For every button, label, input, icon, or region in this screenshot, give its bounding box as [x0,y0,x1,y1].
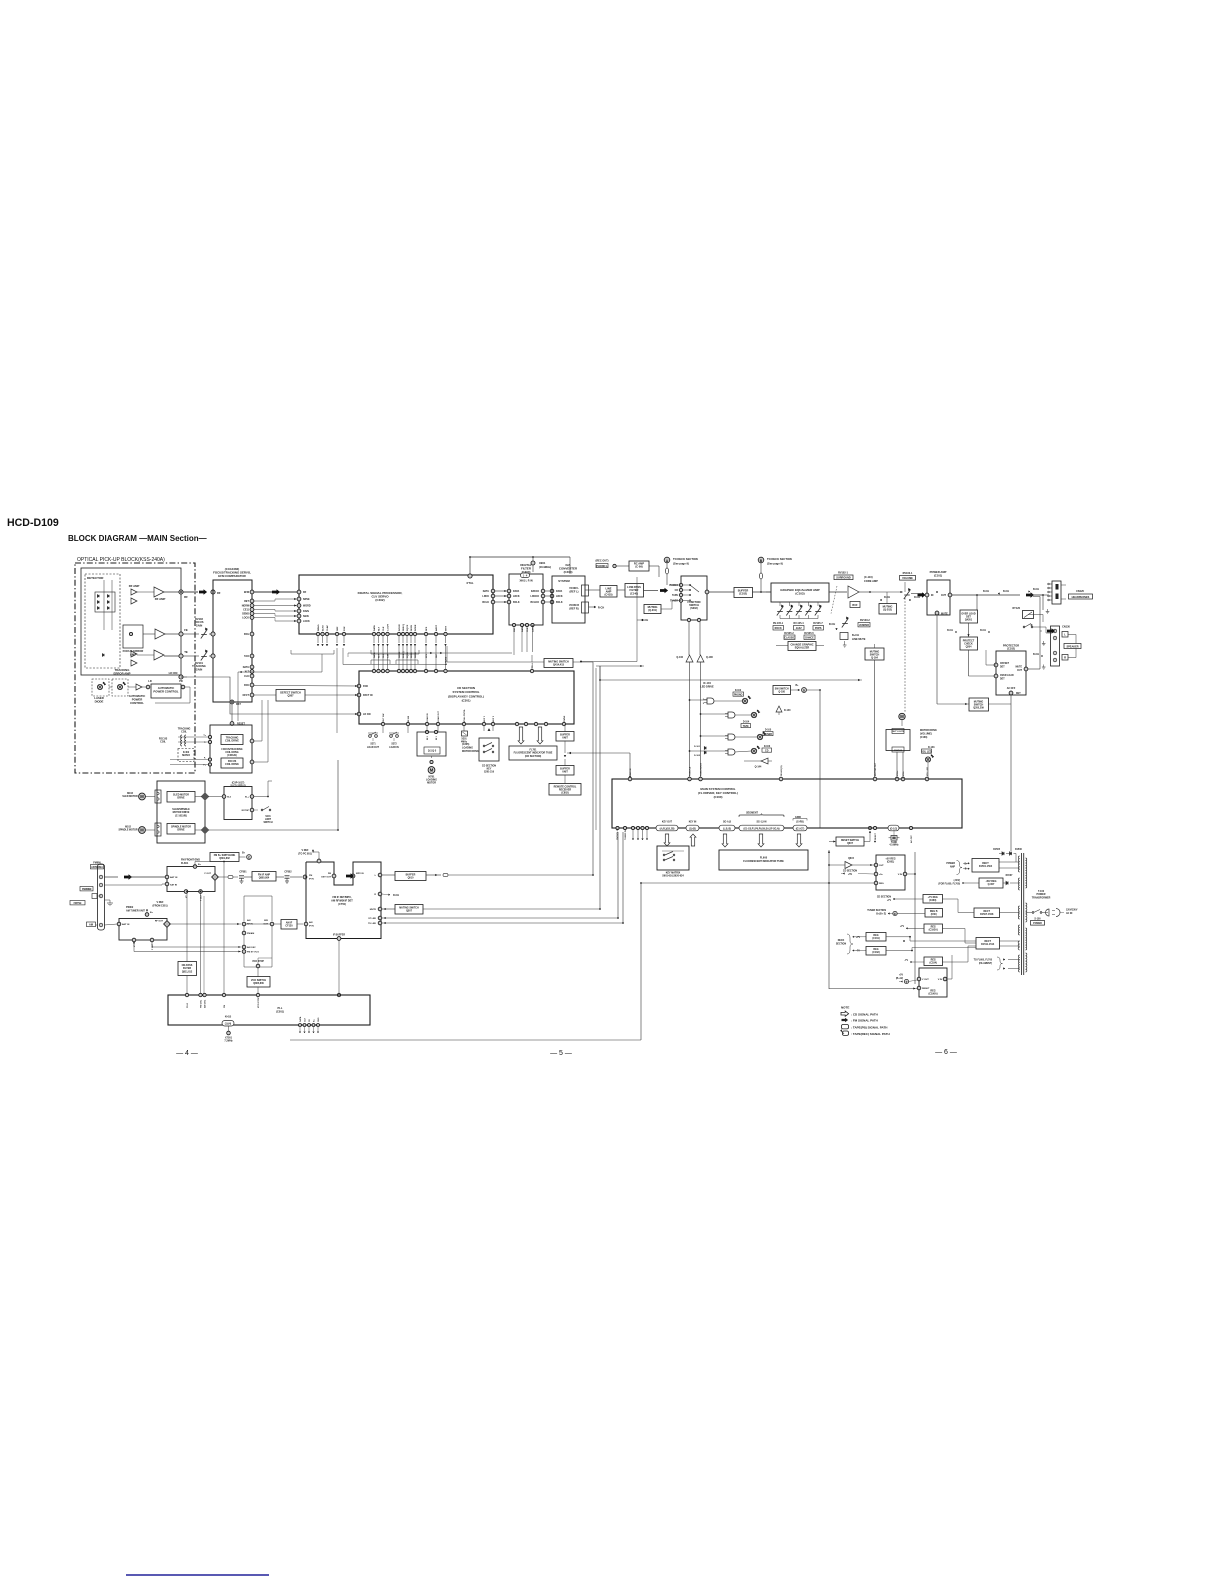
svg-text:CNTROL IN: CNTROL IN [617,828,619,840]
svg-text:AM: AM [309,921,313,924]
svg-text:GND: GND [318,1017,320,1022]
svg-text:Q204: Q204 [966,646,973,649]
svg-text:DETECTOR: DETECTOR [87,576,104,580]
svg-text:TANK: TANK [891,841,898,844]
svg-text:LIMIT: LIMIT [265,819,272,821]
svg-text:AC-OFF: AC-OFF [910,834,913,843]
svg-text:WORD: WORD [303,605,311,608]
svg-text:D-143: D-143 [928,746,935,749]
svg-text:PD: PD [179,679,183,683]
svg-text:SEGMENT: SEGMENT [746,812,758,815]
svg-text:SFS: SFS [426,653,428,658]
svg-text:RET: RET [244,600,249,603]
svg-text:CLK: CLK [244,675,249,678]
svg-text:IF IN: IF IN [309,925,314,927]
svg-text:GAIN: GAIN [196,667,203,671]
svg-text:DATA: DATA [243,666,250,669]
svg-text:1 - 4: 1 - 4 [523,575,528,578]
svg-text:UNIT: UNIT [562,737,568,740]
svg-text:Q205,209: Q205,209 [973,707,984,710]
svg-text:Q607: Q607 [847,842,854,845]
svg-text:LED DRIVE: LED DRIVE [700,685,714,688]
svg-text:CE11: CE11 [243,609,250,612]
svg-text:DODE: DODE [415,651,417,658]
svg-text:ANT IN: ANT IN [170,876,178,879]
svg-text:(C103): (C103) [795,592,804,596]
svg-text:R: R [1064,656,1066,660]
svg-text:(C163): (C163) [920,736,928,739]
svg-text:ERROR AMP: ERROR AMP [114,671,131,675]
svg-text:D-402: D-402 [183,751,190,754]
svg-text:TO DECK SECTION: TO DECK SECTION [673,557,698,561]
svg-text:B-CH: B-CH [980,630,986,632]
svg-text:SLED SERVO: SLED SERVO [230,785,246,788]
svg-text:MUTE: MUTE [370,909,377,911]
svg-text:DET OUT: DET OUT [321,876,331,878]
svg-text:AC OFF: AC OFF [1007,687,1016,690]
svg-text:: TAPE(REC) SIGNAL PATH: : TAPE(REC) SIGNAL PATH [851,1032,890,1036]
svg-text:AM: AM [247,919,251,922]
svg-text:4.19MHz: 4.19MHz [889,844,899,847]
svg-text:— 4 —: — 4 — [176,1050,198,1057]
svg-text:CLK: CLK [305,1017,307,1022]
svg-text:(C301/B): (C301/B) [227,755,237,757]
svg-text:RF AMP: RF AMP [155,597,166,601]
svg-text:X201: X201 [461,739,467,741]
svg-text:SERVO: SERVO [182,755,190,757]
svg-text:DATA: DATA [556,590,563,593]
svg-text:SYSTEM: SYSTEM [558,579,570,583]
svg-text:(C404): (C404) [564,570,573,574]
svg-text:ARST: ARST [435,624,438,631]
svg-text:RELAY (G): RELAY (G) [780,765,783,776]
svg-text:S101: S101 [265,816,271,818]
svg-text:AM OSC: AM OSC [247,946,256,949]
svg-text:FOK: FOK [244,684,249,687]
svg-text:IF IN: IF IN [309,878,314,880]
svg-text:DATA: DATA [373,652,376,658]
svg-text:MUTE: MUTE [941,613,948,616]
svg-text:SENS: SENS [411,625,413,631]
svg-text:D-104: D-104 [743,721,750,724]
svg-text:TAPE: TAPE [743,725,749,728]
svg-text:(FOR FL600, FL700): (FOR FL600, FL700) [938,883,960,885]
svg-text:DIODE: DIODE [95,699,104,703]
svg-text:DATA: DATA [373,625,376,631]
svg-text:B-: B- [965,869,968,871]
svg-text:R-CH: R-CH [393,894,399,897]
svg-text:Q-144: Q-144 [755,766,762,769]
svg-text:FM OSC: FM OSC [201,999,203,1008]
svg-text:-7V: -7V [856,951,860,953]
svg-text:MOTOR DRIVE: MOTOR DRIVE [462,750,479,753]
svg-text:(C460): (C460) [929,899,937,902]
svg-text:R-CH: R-CH [598,607,604,610]
svg-text:LOCK: LOCK [242,617,249,620]
svg-text:AM: AM [89,924,93,927]
svg-text:F OUT: F OUT [204,873,211,875]
svg-text:OUT: OUT [879,865,884,867]
svg-text:B-CH: B-CH [947,630,953,632]
svg-text:SPINDLE MOTOR: SPINDLE MOTOR [118,829,137,831]
svg-text:PHONO: PHONO [670,585,679,587]
svg-text:SUB Q: SUB Q [403,651,405,658]
svg-text:EQUALIZER: EQUALIZER [795,647,810,650]
svg-text:AMP: AMP [950,865,956,868]
svg-text:V OUT: V OUT [922,979,929,981]
svg-text:OUT: OUT [1017,670,1022,672]
svg-text:VCO STOP: VCO STOP [258,997,260,1008]
svg-text:OFCT: OFCT [242,694,249,697]
svg-text:LOCK: LOCK [303,620,310,623]
svg-text:RY120: RY120 [1012,607,1020,610]
svg-text:M102: M102 [125,827,131,829]
svg-text:B-CH: B-CH [1003,590,1009,593]
svg-text:HEADPHONES: HEADPHONES [1072,596,1090,599]
svg-text:FUNCT-A: FUNCT-A [689,766,692,776]
svg-text:LRCK: LRCK [556,595,563,598]
svg-text:MUTE: MUTE [1015,667,1022,669]
svg-text:OUT: OUT [941,594,947,597]
svg-text:(C301): (C301) [462,699,471,703]
svg-text:Q801,802: Q801,802 [219,857,230,860]
svg-text:AM OSC: AM OSC [204,999,207,1008]
svg-text:LATCH: LATCH [532,624,535,632]
svg-text:DODE: DODE [415,624,417,631]
svg-text:OVER LOAD: OVER LOAD [1000,674,1014,677]
svg-text:NORM: NORM [242,605,249,608]
svg-text:ANT IN: ANT IN [122,923,130,926]
svg-text:DFCT IN: DFCT IN [363,694,373,697]
svg-text:R-CH: R-CH [914,596,920,599]
svg-text:POWER: POWER [1033,923,1042,925]
svg-text:DANCE: DANCE [805,637,814,640]
svg-text:S201-216: S201-216 [484,771,495,773]
svg-text:SUB Q: SUB Q [403,624,405,631]
svg-text:TUNER SECTION: TUNER SECTION [867,910,886,912]
svg-text:DATA: DATA [299,1016,302,1022]
svg-text:Q4201: Q4201 [965,619,973,622]
svg-text:XLT: XLT [379,626,381,631]
svg-text:M: M [140,794,144,799]
svg-text:TO FL600, FL700: TO FL600, FL700 [974,960,993,962]
svg-text:TAPE: TAPE [672,594,678,597]
svg-text:JAZZ: JAZZ [796,627,803,630]
svg-text:RV100-1: RV100-1 [903,572,913,575]
svg-text:150/160: 150/160 [894,750,903,752]
svg-text:RF: RF [303,591,307,594]
svg-text:M: M [430,768,434,773]
svg-text:R-CH: R-CH [829,623,835,626]
svg-text:SFS: SFS [426,626,428,631]
svg-text:(1)-(4): (1)-(4) [225,1023,232,1026]
svg-text:Q-607: Q-607 [988,883,995,886]
svg-text:MOTOR: MOTOR [427,782,436,785]
svg-text:Q805,806: Q805,806 [253,982,264,985]
svg-text:RMC IN: RMC IN [630,768,632,776]
svg-text:RV105-2: RV105-2 [784,632,794,635]
svg-text:FM: FM [328,873,331,875]
svg-text:-7V: -7V [904,960,908,962]
svg-text:RV-105-4: RV-105-4 [793,622,804,625]
svg-text:120V/230V: 120V/230V [1066,910,1078,912]
svg-text:COIL DRIVE: COIL DRIVE [225,740,239,743]
svg-text:(C101): (C101) [934,573,942,577]
svg-text:SECTION: SECTION [836,943,847,945]
svg-text:(C192A): (C192A) [929,929,938,932]
svg-text:LD ON: LD ON [169,671,178,675]
svg-text:RF IN: RF IN [247,923,253,925]
svg-text:CLK: CLK [527,627,529,632]
svg-text:KEY: KEY [487,768,492,770]
svg-text:BCLK: BCLK [482,601,489,604]
svg-text:TU LED: TU LED [368,923,376,925]
svg-text:LOAD OUT: LOAD OUT [437,710,440,722]
svg-text:(L,B,/S): (L,B,/S) [723,828,731,830]
svg-text:(C102): (C102) [1007,647,1015,651]
svg-text:FM ST VCO: FM ST VCO [247,952,259,954]
svg-text:RF AMP: RF AMP [129,584,140,588]
svg-text:DAIN: DAIN [303,610,309,613]
svg-text:+7V: +7V [900,926,905,928]
svg-text:40-1B: 40-1B [225,1016,232,1019]
svg-text:C.IN: C.IN [388,653,390,658]
svg-text:TUNER: TUNER [764,734,772,736]
svg-text:(C-110): (C-110) [864,575,873,579]
svg-text:TE: TE [184,650,188,654]
svg-text:SLED MOTOR: SLED MOTOR [122,796,138,798]
svg-text:SAT IN: SAT IN [170,884,177,887]
svg-text:PU-D: PU-D [187,1002,189,1008]
svg-text:LD ON: LD ON [363,713,371,716]
svg-text:SENS: SENS [411,652,413,658]
svg-text:OFFSET: OFFSET [1000,663,1010,665]
svg-text:C.OUT: C.OUT [388,624,390,631]
svg-text:SG-1,5-M: SG-1,5-M [757,822,767,824]
svg-text:TAO: TAO [244,655,249,658]
svg-text:AC IN: AC IN [1066,912,1073,915]
svg-text:+5V: +5V [848,874,853,876]
svg-text:(C102): (C102) [739,592,747,596]
svg-text:C: C [248,856,250,860]
svg-text:HCD-D109: HCD-D109 [7,517,59,529]
svg-text:CF120: CF120 [285,925,293,928]
svg-text:BCLK: BCLK [556,601,563,604]
svg-text:ST LED: ST LED [368,918,376,920]
svg-text:B+CH: B+CH [852,634,859,637]
svg-text:RESET: RESET [922,988,930,990]
svg-text:VCO STOP: VCO STOP [252,961,264,963]
svg-text:LRCKO: LRCKO [531,595,540,598]
svg-text:EFM COMPARATOR: EFM COMPARATOR [218,574,246,578]
svg-text:FOK: FOK [344,626,346,631]
svg-text:OUT1 OUT2: OUT1 OUT2 [892,731,905,733]
svg-text:X601 L R IN: X601 L R IN [519,580,532,583]
svg-text:KEY OUT: KEY OUT [662,822,673,824]
svg-text:DET: DET [1000,678,1005,680]
svg-text:FM/AM: FM/AM [247,932,254,935]
svg-text:DATA: DATA [483,590,490,593]
svg-text:TO DECK SECTION: TO DECK SECTION [767,557,792,561]
svg-text:VOL LED: VOL LED [921,750,932,753]
svg-text:Q615: Q615 [848,857,855,860]
svg-text:X'TAL: X'TAL [466,581,474,585]
svg-text:COIL DRIVE: COIL DRIVE [225,752,239,754]
svg-text:B-CH: B-CH [983,590,989,593]
svg-text:CLASSIC: CLASSIC [784,637,795,640]
svg-text:CD SECTION: CD SECTION [482,766,497,768]
svg-text:RF OUT: RF OUT [155,921,164,923]
svg-text:SQCK: SQCK [407,651,409,658]
svg-text:RST: RST [236,703,241,706]
svg-text:DOOR: DOOR [399,624,401,631]
svg-text:S272: S272 [391,744,397,746]
svg-text:FM: FM [309,875,312,877]
svg-text:CLAP: CLAP [326,625,329,631]
svg-text:(CD SECTION): (CD SECTION) [525,755,542,758]
svg-text:D1511-1514: D1511-1514 [981,943,995,946]
svg-text:(16.9MHz): (16.9MHz) [539,565,551,569]
svg-text:CD: CD [675,590,679,592]
svg-text:POWER: POWER [946,863,955,865]
svg-text:(REF L): (REF L) [570,591,579,594]
svg-text:(C601): (C601) [887,861,895,864]
svg-text:SEIN: SEIN [303,615,309,618]
svg-text:FUNCTION B: FUNCTION B [701,763,703,776]
svg-text:(REF R): (REF R) [569,608,578,611]
svg-text:(Q-301): (Q-301) [648,609,657,612]
svg-text:4MHz: 4MHz [461,740,468,743]
svg-text:Q-180: Q-180 [778,690,785,693]
svg-text:FM: FM [224,1005,226,1008]
svg-text:LOAD IN: LOAD IN [389,746,399,749]
svg-text:(A,/B,)(1B,2B): (A,/B,)(1B,2B) [660,827,675,830]
svg-text:RV105-7: RV105-7 [813,622,823,625]
svg-text:V IN: V IN [898,874,903,876]
svg-text:COIL: COIL [160,741,166,744]
svg-text:COIL DRIVE: COIL DRIVE [225,763,239,766]
svg-text:D1507: D1507 [1006,875,1013,877]
svg-text:OUT SW: OUT SW [383,714,385,722]
svg-text:(B+12): (B+12) [896,978,903,980]
svg-text:IN SW: IN SW [408,716,410,722]
svg-text:FM75Ω: FM75Ω [74,903,82,905]
svg-text:(Q-202): (Q-202) [883,609,892,612]
svg-text:M: M [140,828,144,833]
svg-text:RV-105-1: RV-105-1 [773,622,784,625]
svg-text:PWNE: PWNE [564,715,566,722]
svg-text:OPTICAL PICK-UP BLOCK(KSS-240A: OPTICAL PICK-UP BLOCK(KSS-240A) [77,557,165,563]
svg-text:RF: RF [184,595,188,599]
svg-text:FULL: FULL [532,662,534,668]
svg-text:XTAL CNTRL: XTAL CNTRL [463,708,466,722]
svg-text:ESTOP: ESTOP [242,810,250,812]
svg-text:SPEAKER: SPEAKER [1066,645,1078,648]
svg-text:B+(B+ E): B+(B+ E) [876,913,886,915]
svg-text:ROCK: ROCK [775,627,782,630]
svg-text:(FROM C501): (FROM C501) [152,904,167,907]
svg-text:IN: IN [931,594,934,597]
svg-text:BCLK: BCLK [513,601,520,604]
svg-text:(G1-G5,P1,P6,P9,S9,SA,SF-SG,N): (G1-G5,P1,P6,P9,S9,SA,SF-SG,N) [744,827,780,830]
svg-text:BUF: BUF [852,604,858,607]
svg-text:DRAG: DRAG [317,624,320,631]
svg-text:DEND: DEND [242,613,249,616]
svg-text:F OUT: F OUT [201,894,203,901]
svg-text:D-161: D-161 [694,746,701,748]
svg-text:FM300Ω: FM300Ω [82,889,91,891]
svg-text:(C501): (C501) [276,1010,284,1014]
svg-text:Q-108: Q-108 [706,656,713,659]
svg-text:FE: FE [184,628,188,632]
svg-text:Q811,812: Q811,812 [182,970,193,973]
svg-text:SWITCH: SWITCH [263,822,272,824]
svg-text:DET: DET [1000,666,1005,668]
svg-text:KEY IN: KEY IN [689,822,697,824]
svg-text:(C161): (C161) [872,937,880,940]
svg-text:TRANSFORMER: TRANSFORMER [1032,896,1051,899]
svg-text:SURROUND: SURROUND [836,577,851,580]
svg-text:CN120: CN120 [1076,590,1084,593]
svg-text:LRCK: LRCK [482,595,489,598]
svg-text:CONTROL: CONTROL [130,701,144,705]
svg-text:Q-106: Q-106 [676,656,683,659]
svg-text:GAIN: GAIN [196,623,203,627]
svg-text:M103: M103 [127,793,133,795]
svg-text:F-: F- [204,758,206,760]
svg-text:WHT: WHT [446,625,448,631]
svg-text:(G-RB): (G-RB) [796,822,804,824]
svg-text:Q307: Q307 [287,695,294,698]
svg-text:RV103-2: RV103-2 [860,619,870,622]
svg-text:— 5 —: — 5 — [550,1050,572,1057]
svg-text:(C162): (C162) [872,951,880,954]
svg-text:T-: T- [204,742,206,744]
svg-text:CLK: CLK [383,626,385,631]
svg-text:: CD SIGNAL PATH: : CD SIGNAL PATH [851,1012,878,1016]
svg-text:(C410): (C410) [605,593,613,597]
svg-text:Q507: Q507 [406,909,413,912]
svg-text:RST: RST [514,627,516,632]
svg-text:FOCUS/TRACKING: FOCUS/TRACKING [221,748,242,751]
svg-text:DATA: DATA [513,590,520,593]
svg-text:(C190A): (C190A) [928,993,937,996]
svg-text:Q805,804: Q805,804 [259,877,270,880]
svg-text:LOAD OUT: LOAD OUT [367,746,380,749]
svg-text:B-CH: B-CH [1033,653,1039,656]
svg-text:NDVE: NDVE [303,598,310,601]
svg-text:LINE MUTE: LINE MUTE [852,638,866,641]
svg-text:RST: RST [436,653,438,658]
svg-text:(G1-G7): (G1-G7) [796,828,805,830]
svg-text:FL801: FL801 [181,862,189,865]
svg-text:CD SECTION: CD SECTION [877,897,892,899]
svg-text:CF802: CF802 [284,871,292,874]
svg-text:REG: REG [879,883,884,885]
svg-text:POPS: POPS [815,627,822,630]
svg-text:BLOCK DIAGRAM —MAIN Section—: BLOCK DIAGRAM —MAIN Section— [68,534,207,543]
svg-text:DECK: DECK [838,940,845,942]
svg-text:PLL: PLL [278,1006,283,1010]
svg-text:(C184): (C184) [930,962,938,965]
svg-text:TUNED IN: TUNED IN [625,830,627,840]
svg-text:D1501-1504: D1501-1504 [979,865,993,868]
svg-text:SQCK: SQCK [407,624,409,631]
svg-text:OUT: OUT [263,923,268,925]
svg-text:E: E [894,912,896,916]
svg-text:KEY 2: KEY 2 [493,715,495,722]
svg-text:(C-09): (C-09) [635,565,642,569]
